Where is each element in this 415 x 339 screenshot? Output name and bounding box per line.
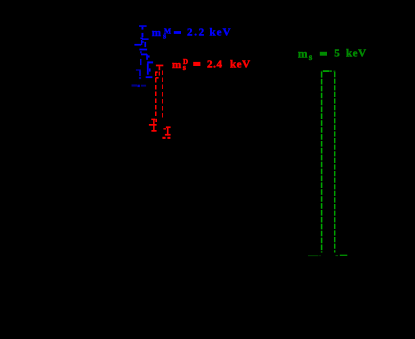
svg-text:m: m — [172, 59, 181, 71]
svg-text:5: 5 — [334, 48, 340, 60]
svg-text:keV: keV — [346, 48, 367, 60]
svg-text:M: M — [164, 26, 171, 35]
svg-text:m: m — [298, 49, 308, 61]
svg-text:keV: keV — [230, 59, 251, 71]
svg-text:s: s — [309, 52, 313, 62]
svg-text:2.2: 2.2 — [187, 27, 206, 39]
svg-text:m: m — [152, 27, 161, 39]
svg-text:2.4: 2.4 — [207, 59, 223, 71]
svg-text:D: D — [183, 58, 188, 66]
svg-text:keV: keV — [210, 27, 232, 39]
